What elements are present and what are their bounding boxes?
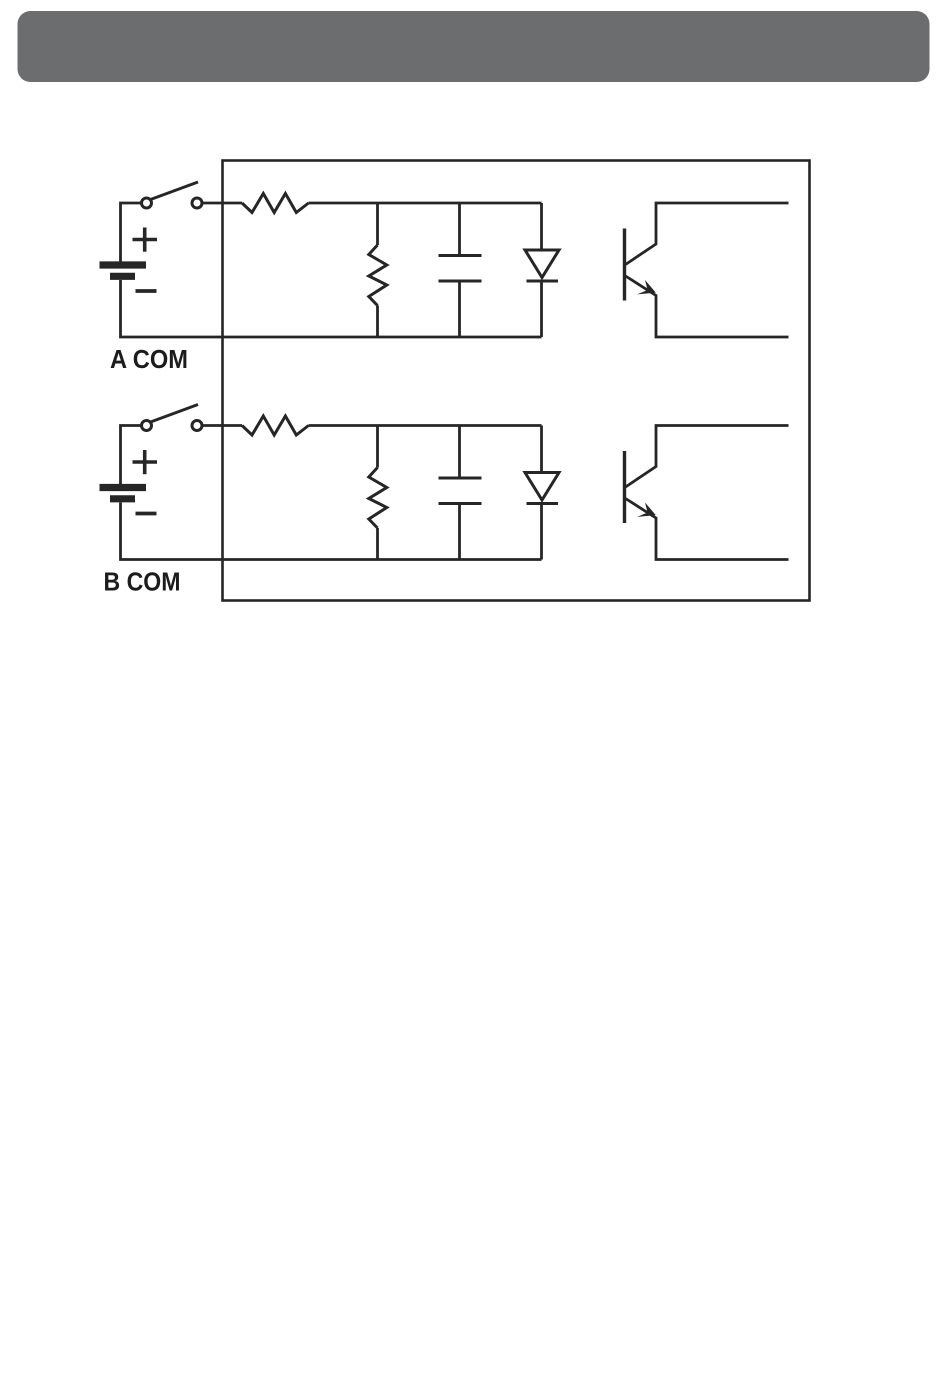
switch S2 throw terminal (192, 421, 202, 431)
battery BT1 short plate (110, 273, 135, 280)
battery BT2 short plate (110, 495, 135, 502)
diode D2 cathode bar (527, 502, 559, 505)
switch S1 lever (151, 182, 199, 200)
diode D2 cathode lead (540, 504, 543, 560)
phototransistor Q2 emitter arrowhead (637, 503, 656, 517)
diode D1 cathode lead (540, 281, 543, 337)
resistor R2 shunt bottom lead (376, 306, 379, 338)
wire switch to resistor R1 (203, 202, 243, 205)
capacitor C2 top plate (439, 477, 482, 480)
switch S1 pole terminal (142, 198, 152, 208)
capacitor C1 top lead (458, 203, 461, 256)
resistor R4 shunt top lead (376, 426, 379, 468)
battery BT2 plus sign (133, 450, 158, 474)
component box outline (223, 161, 810, 601)
battery BT1 negative lead and bottom rail wire (121, 280, 542, 337)
capacitor C2 bottom lead (458, 504, 461, 560)
battery BT1 long plate (100, 261, 147, 268)
resistor R4 (shunt) (369, 468, 387, 529)
wire node A top rail (309, 202, 542, 205)
wire node B top rail (309, 424, 542, 427)
svg-text:B COM: B COM (104, 567, 181, 597)
battery BT1 plus sign (133, 228, 158, 252)
battery BT1 positive lead wire (121, 203, 142, 262)
diode D2 triangle (525, 473, 559, 501)
diode D1 anode lead (540, 203, 543, 250)
switch S1 throw terminal (192, 198, 202, 208)
capacitor C2 top lead (458, 426, 461, 479)
battery BT2 negative lead and bottom rail wire (121, 503, 542, 560)
battery BT1 minus sign (136, 289, 157, 293)
title bar (18, 11, 930, 82)
battery BT2 long plate (100, 484, 147, 491)
phototransistor Q2 emitter (626, 499, 789, 560)
capacitor C1 bottom plate (439, 280, 482, 283)
phototransistor Q2 base bar (623, 451, 626, 523)
resistor R1 (series) (242, 194, 309, 213)
capacitor C2 bottom plate (439, 502, 482, 505)
battery BT2 minus sign (136, 512, 157, 516)
phototransistor Q2 collector (626, 426, 789, 488)
capacitor C1 bottom lead (458, 281, 461, 337)
wire switch to resistor R3 (203, 424, 243, 427)
svg-text:A COM: A COM (110, 344, 188, 374)
resistor R4 shunt bottom lead (376, 528, 379, 560)
phototransistor Q1 emitter arrowhead (637, 280, 656, 294)
battery BT2 positive lead wire (121, 426, 142, 485)
capacitor C1 top plate (439, 254, 482, 257)
diode D1 triangle (525, 250, 559, 278)
resistor R2 (shunt) (369, 245, 387, 306)
resistor R3 (series) (242, 416, 309, 435)
resistor R2 shunt top lead (376, 203, 379, 245)
switch S2 pole terminal (142, 421, 152, 431)
switch S2 lever (151, 405, 199, 423)
diode D2 anode lead (540, 426, 543, 473)
phototransistor Q1 emitter (626, 276, 789, 337)
phototransistor Q1 collector (626, 203, 789, 265)
diode D1 cathode bar (527, 280, 559, 283)
phototransistor Q1 base bar (623, 229, 626, 301)
